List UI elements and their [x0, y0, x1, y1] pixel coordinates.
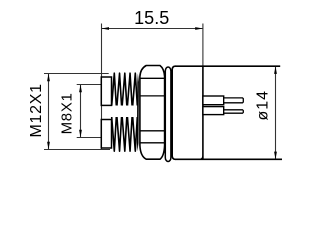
arrow top of M12X1	[47, 74, 50, 82]
svg-text:ø14: ø14	[254, 90, 271, 121]
hex inner line lower	[140, 130, 165, 132]
dimension ø14 line	[275, 66, 277, 159]
hex inner line upper	[140, 95, 165, 97]
pin 1 base	[203, 96, 224, 105]
thread run-out last crest	[137, 74, 139, 152]
svg-text:15.5: 15.5	[134, 8, 169, 28]
arrow top of ø14	[274, 66, 277, 74]
svg-text:M12X1: M12X1	[28, 83, 45, 137]
front pilot lower rectangle	[101, 120, 111, 149]
extension line left (front face)	[101, 24, 103, 150]
pin 2 base	[203, 107, 224, 115]
hex face line lower	[140, 142, 165, 144]
svg-text:M8X1: M8X1	[58, 92, 75, 134]
front pilot upper rectangle	[101, 77, 111, 105]
hex face line upper	[140, 77, 165, 79]
M8X1 bottom extension line	[77, 137, 105, 139]
dimension 15.5 line	[102, 28, 203, 30]
body left edge	[172, 66, 175, 159]
body step fillet	[200, 156, 203, 159]
o-ring	[165, 67, 171, 162]
arrow bottom of M8X1	[79, 130, 82, 138]
arrow top of M8X1	[79, 85, 82, 93]
arrow bottom of ø14	[274, 152, 277, 160]
M12X1 top extension line	[44, 73, 109, 75]
hex nut body	[140, 66, 165, 160]
dimension M12X1 line	[48, 74, 50, 150]
M12X1 bottom extension line	[44, 149, 110, 151]
dimension M8X1 line	[80, 85, 82, 138]
pin 1 tip	[224, 98, 244, 103]
body bottom edge / ø14 bottom extension line	[175, 158, 282, 160]
body step line	[202, 66, 204, 159]
upper thread coils M12X1	[112, 73, 138, 105]
arrow bottom of M12X1	[47, 142, 50, 150]
M8X1 top extension line	[77, 84, 105, 86]
arrow right of 15.5	[195, 27, 203, 30]
body top edge / ø14 top extension line	[175, 65, 280, 67]
pin 2 tip	[224, 110, 244, 113]
lower thread coils M12X1	[112, 117, 138, 151]
extension line right (body step)	[202, 24, 204, 67]
arrow left of 15.5	[101, 27, 109, 30]
